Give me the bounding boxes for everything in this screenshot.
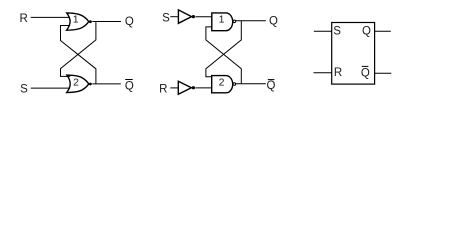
svg-text:S: S bbox=[162, 12, 170, 24]
svg-text:R: R bbox=[159, 83, 167, 95]
svg-text:Q: Q bbox=[125, 80, 134, 92]
svg-text:R: R bbox=[20, 13, 28, 25]
svg-text:Q: Q bbox=[361, 67, 370, 79]
svg-text:2: 2 bbox=[219, 77, 225, 89]
svg-text:S: S bbox=[20, 84, 28, 96]
svg-text:Q: Q bbox=[267, 80, 276, 92]
svg-text:1: 1 bbox=[73, 14, 79, 26]
svg-text:S: S bbox=[333, 26, 341, 38]
svg-text:R: R bbox=[334, 67, 342, 79]
svg-text:Q: Q bbox=[125, 16, 134, 28]
svg-text:2: 2 bbox=[73, 77, 79, 89]
svg-text:1: 1 bbox=[219, 14, 225, 26]
svg-text:Q: Q bbox=[269, 16, 278, 28]
svg-text:Q: Q bbox=[362, 26, 371, 38]
